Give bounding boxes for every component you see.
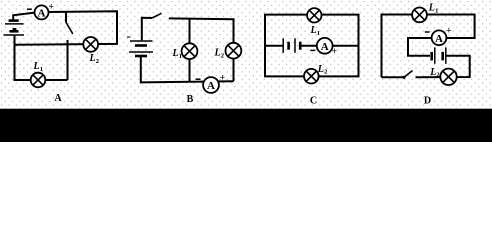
svg-text:+: + xyxy=(48,3,53,13)
svg-text:1: 1 xyxy=(40,66,43,73)
svg-text:L: L xyxy=(310,25,317,36)
svg-text:1: 1 xyxy=(435,7,438,14)
svg-text:L: L xyxy=(89,53,96,64)
svg-text:2: 2 xyxy=(221,52,224,59)
svg-text:+: + xyxy=(220,74,225,84)
svg-text:A: A xyxy=(54,93,62,104)
svg-text:L: L xyxy=(214,48,221,59)
svg-text:+: + xyxy=(446,26,451,36)
svg-text:L: L xyxy=(172,48,179,59)
svg-text:L: L xyxy=(317,64,324,75)
svg-text:B: B xyxy=(187,94,194,105)
svg-text:2: 2 xyxy=(96,58,99,65)
svg-text:C: C xyxy=(310,96,317,107)
svg-text:2: 2 xyxy=(436,72,439,79)
svg-text:A: A xyxy=(207,80,215,92)
svg-text:A: A xyxy=(321,41,329,53)
svg-text:A: A xyxy=(38,7,46,19)
svg-text:L: L xyxy=(429,67,436,78)
svg-text:L: L xyxy=(33,61,40,72)
svg-text:2: 2 xyxy=(324,69,327,76)
svg-text:A: A xyxy=(435,33,443,45)
svg-text:L: L xyxy=(428,3,435,14)
svg-text:1: 1 xyxy=(317,30,320,37)
svg-text:D: D xyxy=(424,96,431,107)
svg-text:+: + xyxy=(332,47,337,57)
svg-text:1: 1 xyxy=(179,53,182,60)
